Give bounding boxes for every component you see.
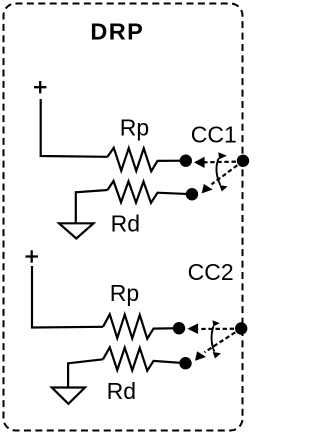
ground 2 [52, 388, 85, 404]
arrowhead at Rd node 2 [195, 351, 206, 361]
arrowhead at Rd node [202, 184, 213, 194]
toggle arc arrow 1 [216, 158, 220, 185]
svg-text:CC1: CC1 [191, 122, 237, 148]
resistor Rp (circuit 2) [103, 314, 179, 338]
resistor Rd (circuit 2) [103, 347, 186, 370]
svg-text:DRP: DRP [90, 19, 144, 45]
dashed wire CC1 to Rd node [212, 161, 244, 184]
resistor Rp (circuit 1) [108, 148, 186, 171]
dashed wire CC2 to Rp node [199, 328, 242, 330]
svg-text:Rd: Rd [111, 211, 140, 237]
arrowhead at Rp node 2 [187, 323, 198, 334]
svg-text:Rp: Rp [110, 280, 139, 306]
node Rd-CC2 [179, 357, 191, 369]
plus terminal 1 [34, 81, 46, 93]
node Rp-CC2 [173, 322, 185, 334]
ground 1 [59, 223, 94, 238]
wire from plus terminal 2 [32, 266, 103, 328]
node CC1 pin [237, 155, 249, 167]
svg-text:Rp: Rp [120, 115, 149, 141]
dashed wire CC2 to Rd node [205, 329, 242, 353]
svg-text:CC2: CC2 [188, 259, 234, 285]
node Rp-CC1 [180, 155, 192, 167]
plus terminal 2 [26, 250, 38, 262]
node CC2 pin [235, 322, 247, 334]
toggle arc arrow 2 [212, 326, 215, 351]
svg-text:Rd: Rd [107, 378, 136, 404]
arrowhead at Rp node [194, 157, 205, 168]
resistor Rd (circuit 1) [108, 181, 193, 203]
node Rd-CC1 [186, 188, 198, 200]
DRP boundary box (dashed enclosure) [4, 4, 243, 431]
wire from plus terminal 1 [41, 99, 108, 157]
wire to ground 2 [68, 359, 103, 387]
dashed wire CC1 to Rp node [205, 160, 244, 163]
wire to ground 1 [76, 190, 108, 223]
